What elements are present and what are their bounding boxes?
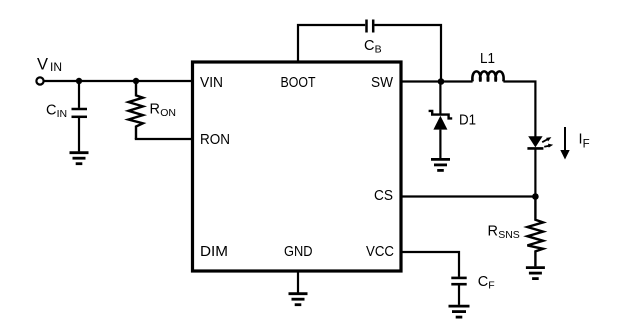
svg-text:IN: IN (57, 108, 68, 120)
pin label VCC (366, 244, 394, 260)
capacitor CB (367, 20, 374, 33)
LED D2 (527, 136, 553, 196)
svg-text:CS: CS (374, 188, 393, 204)
svg-text:DIM: DIM (200, 244, 228, 260)
wire VCC pin to CF (401, 252, 459, 277)
ground (under CIN) (70, 153, 89, 164)
capacitor CIN (72, 81, 88, 151)
svg-text:GND: GND (284, 244, 313, 260)
wire RON resistor to RON pin (135, 138, 193, 140)
label D1 (459, 113, 476, 129)
svg-text:SW: SW (371, 75, 393, 91)
diode D1 (schottky) (429, 82, 453, 159)
svg-text:SNS: SNS (498, 229, 520, 241)
resistor RON (129, 81, 143, 139)
wire L1 to LED rail (503, 82, 535, 137)
wire GND pin down (297, 271, 299, 293)
node junction at SW (438, 78, 445, 85)
current arrow IF (560, 127, 569, 160)
terminal VIN (input) (36, 77, 43, 84)
svg-text:F: F (583, 139, 590, 151)
IC U1 body (193, 62, 402, 271)
label RSNS (488, 224, 520, 242)
wire VIN input to IC (44, 80, 193, 82)
label VIN (37, 55, 62, 73)
label RON (150, 102, 176, 120)
svg-text:R: R (150, 102, 160, 118)
label CB (364, 38, 382, 56)
ground (under RSNS) (526, 268, 545, 279)
node junction at RON (133, 78, 139, 84)
wire BOOT pin up (298, 25, 365, 62)
label CIN (46, 103, 67, 121)
svg-text:F: F (488, 280, 494, 292)
pin label CS (374, 188, 393, 204)
pin label DIM (200, 244, 228, 260)
svg-text:VCC: VCC (366, 244, 394, 260)
inductor L1 (472, 71, 503, 81)
node junction at CIN (76, 78, 82, 84)
label L1 (480, 51, 495, 67)
svg-text:VIN: VIN (200, 75, 223, 91)
pin label BOOT (281, 75, 316, 91)
svg-text:B: B (375, 44, 382, 56)
pin label SW (371, 75, 393, 91)
wire CS pin to sense node (401, 195, 535, 197)
svg-text:RON: RON (200, 132, 230, 148)
svg-text:D1: D1 (459, 113, 476, 129)
ground (under CF) (449, 306, 470, 317)
svg-text:BOOT: BOOT (281, 75, 316, 91)
wire SW pin to L1 (401, 80, 473, 82)
ground (under D1) (431, 159, 450, 170)
svg-text:R: R (488, 224, 498, 240)
node junction at CS (532, 193, 539, 200)
svg-text:C: C (46, 103, 56, 119)
pin label RON (200, 132, 230, 148)
capacitor CF (451, 278, 466, 305)
wire CB to SW node (374, 25, 441, 82)
svg-text:L1: L1 (480, 51, 495, 67)
svg-text:IN: IN (50, 60, 62, 74)
ground (under GND pin) (289, 294, 308, 305)
svg-text:C: C (364, 38, 374, 54)
pin label VIN (200, 75, 223, 91)
svg-text:C: C (478, 274, 488, 290)
resistor RSNS (527, 197, 543, 267)
pin label GND (284, 244, 313, 260)
svg-text:ON: ON (160, 107, 176, 119)
svg-text:V: V (37, 55, 48, 73)
label IF (579, 132, 590, 151)
label CF (478, 274, 495, 292)
